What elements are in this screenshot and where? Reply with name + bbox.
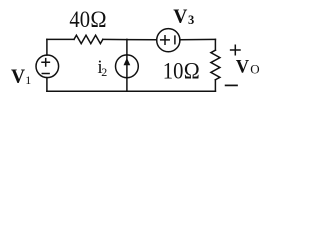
svg-text:40: 40 (69, 7, 90, 32)
i2 arrowhead (124, 58, 131, 65)
svg-text:Ω: Ω (90, 7, 106, 32)
wire right vertical top segment (214, 39, 216, 50)
resistor 40ohm zigzag (74, 35, 103, 43)
svg-text:3: 3 (188, 13, 194, 27)
wire top-left horizontal (47, 38, 74, 40)
svg-text:2: 2 (101, 65, 107, 79)
voltage source V3 circle (157, 29, 180, 52)
wire left vertical top segment (46, 39, 48, 55)
svg-text:10: 10 (163, 58, 184, 83)
wire middle branch top stem (126, 39, 128, 55)
plus sign of VO (231, 45, 240, 54)
V1 minus sign (42, 73, 49, 75)
voltage source V1 circle (36, 55, 59, 78)
wire V3 to top-right corner (180, 38, 216, 40)
wire left vertical bottom segment (46, 78, 48, 92)
i2 arrow shaft (126, 55, 128, 78)
svg-text:O: O (250, 62, 259, 77)
svg-text:V: V (11, 67, 25, 88)
wire bottom horizontal (47, 90, 216, 92)
svg-text:V: V (173, 7, 187, 28)
V1 plus sign (42, 59, 49, 66)
svg-text:Ω: Ω (184, 58, 200, 83)
svg-text:V: V (236, 58, 250, 78)
current source i2 circle (116, 55, 139, 78)
wire resistor to V3 (103, 38, 157, 40)
wire right vertical bottom segment (214, 80, 216, 91)
resistor 10ohm zigzag (211, 50, 220, 80)
wire middle branch bottom stem (126, 78, 128, 92)
V3 plus sign (161, 36, 170, 45)
V3 minus bar (174, 36, 176, 44)
minus sign of VO (226, 84, 237, 86)
svg-text:1: 1 (25, 73, 31, 87)
